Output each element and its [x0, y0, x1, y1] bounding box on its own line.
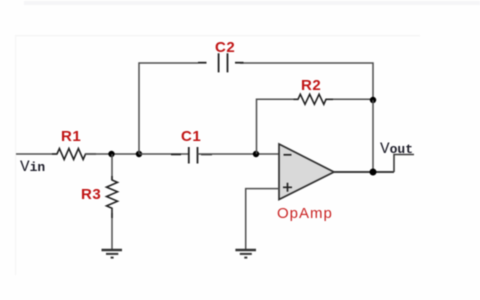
svg-text:R1: R1 — [61, 128, 81, 145]
svg-text:C1: C1 — [181, 128, 201, 145]
resistor R3 — [107, 176, 118, 218]
resistor R1 — [52, 149, 96, 160]
wire R2 branch from minus node — [257, 99, 374, 154]
wire C1 to op-amp minus input — [198, 153, 280, 155]
capacitor C1 — [171, 147, 212, 164]
wire feedback vertical to output — [372, 100, 374, 172]
node A junction dot — [108, 151, 114, 157]
ground (plus input) — [235, 250, 256, 258]
wire op-amp output — [334, 171, 394, 173]
node D junction dot (R2/C2 junction) — [370, 97, 376, 103]
node E output junction dot — [370, 169, 377, 176]
op-amp U1 — [279, 144, 334, 200]
wire C2 loop: up and across — [139, 63, 373, 154]
svg-text:Vin: Vin — [20, 158, 45, 176]
wire Vout step — [394, 155, 414, 173]
capacitor C2 — [198, 53, 244, 72]
svg-text:R3: R3 — [81, 186, 101, 203]
svg-text:R2: R2 — [301, 77, 321, 94]
resistor R2 — [294, 94, 334, 104]
wire R1 to node A — [85, 153, 139, 155]
wire R3 branch — [111, 154, 113, 249]
wire plus input to ground — [246, 189, 279, 249]
svg-text:OpAmp: OpAmp — [277, 205, 333, 222]
ground (below R3) — [102, 250, 123, 258]
node B junction dot — [136, 151, 142, 157]
wire Vin input — [16, 153, 57, 155]
svg-text:Vout: Vout — [380, 140, 413, 158]
svg-text:C2: C2 — [215, 39, 235, 56]
node C junction dot (minus input node) — [253, 151, 259, 157]
wire node B to C1 — [139, 153, 188, 155]
